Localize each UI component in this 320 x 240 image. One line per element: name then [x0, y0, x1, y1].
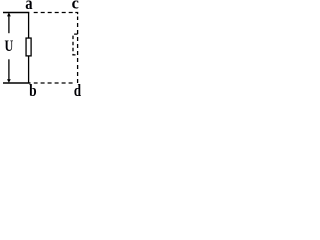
- svg-text:d: d: [74, 81, 81, 97]
- wire: dashed extension b-d: [34, 82, 73, 84]
- phantom resistor (dashed box between c and d): [73, 34, 78, 55]
- voltage arrow U: upper shaft: [8, 16, 10, 34]
- voltage arrow U: lower arrowhead (points down to bottom lead): [7, 79, 11, 83]
- svg-text:a: a: [25, 0, 32, 13]
- wire: dashed branch c-d (right vertical): [77, 17, 79, 84]
- svg-text:c: c: [72, 0, 80, 12]
- resistor R (box between a and b): [26, 38, 31, 56]
- voltage arrow U: upper arrowhead (points up to top lead): [7, 12, 11, 16]
- voltage arrow U: lower shaft: [8, 59, 10, 80]
- wire: corner at node c: [75, 13, 77, 15]
- wire: bottom lead b (solid): [3, 82, 31, 84]
- wire: top lead a (solid): [3, 12, 29, 14]
- wire: bottom branch from resistor to bottom lead: [28, 56, 30, 83]
- svg-text:b: b: [29, 81, 36, 97]
- svg-text:U: U: [5, 38, 14, 55]
- wire: dashed extension a-c (top): [31, 12, 73, 14]
- wire: top branch down to resistor: [28, 13, 30, 39]
